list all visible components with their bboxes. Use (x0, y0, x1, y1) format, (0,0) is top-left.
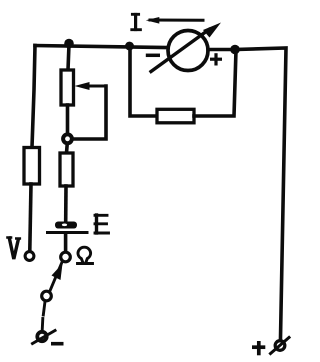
meter G body (circle) (168, 31, 208, 71)
label plus at meter (210, 53, 222, 65)
rheostat R1 wiper arrow (75, 82, 107, 90)
wire pivot down to minus probe (42, 302, 45, 331)
resistor R3 (voltage-range resistor, left) (24, 148, 40, 185)
switch S1 pivot (open circle) (42, 291, 52, 301)
label minus sign (51, 342, 64, 346)
rheostat R1 body (61, 70, 74, 105)
wire shunt loop left and bottom (130, 46, 157, 116)
wire node A down to rheostat R1 (68, 44, 69, 70)
wire right rail (node D to plus probe) (234, 48, 286, 338)
wire node B to resistor R2 (65, 144, 69, 153)
label Ohm (78, 247, 93, 263)
switch S1 arm with arrow (50, 261, 63, 291)
resistor R2 (60, 153, 73, 186)
node D (junction dot right of meter) (230, 45, 240, 55)
meter G adjustment arrow (diagonal) (151, 23, 221, 72)
arrow for current I (pointing left) (146, 17, 203, 24)
wire left branch (top corner down to resistor R3) (32, 46, 35, 148)
wire R3 to V terminal (30, 184, 31, 251)
terminal minus probe (circle with slash) (33, 331, 56, 344)
resistor R4 (shunt) (157, 109, 194, 123)
label E (95, 215, 109, 233)
terminal plus probe (circle with slash) (271, 338, 290, 354)
wire shunt loop bottom right and up to node D (194, 50, 236, 116)
battery E negative plate (long thin bar) (46, 231, 89, 234)
label minus at meter (146, 54, 160, 58)
node B (open circle junction) (63, 134, 72, 143)
wire meter right terminal to node D (208, 48, 230, 52)
wire R1 bottom to node B (66, 105, 70, 134)
wire top rail (35, 46, 166, 48)
terminal Ohm jack (open circle) (61, 252, 71, 262)
label V (8, 238, 20, 260)
label plus sign (252, 341, 265, 355)
label I (132, 14, 141, 29)
wire R2 to battery E (64, 186, 68, 221)
wire wiper to node B (74, 86, 106, 139)
terminal V jack (open circle) (25, 252, 34, 261)
node A (junction dot on top rail) (64, 39, 74, 49)
node C (junction dot, shunt tap on top rail) (125, 42, 134, 51)
battery E positive plate (thick short bar) (55, 222, 77, 229)
wire battery to Ohm terminal (64, 234, 68, 251)
